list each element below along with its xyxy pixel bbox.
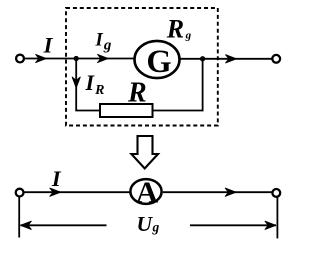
extension line right (voltage measurement) [276,197,278,238]
terminal left (bottom circuit) [16,189,24,197]
extension line left (voltage measurement) [18,197,20,238]
wire: left terminal to galvanometer [25,58,134,60]
current arrow (output wire, top) [226,55,237,63]
wire: left junction down to resistor branch [75,59,77,111]
current arrow I (bottom wire) [50,188,61,196]
dashed box (equivalent ammeter boundary) [66,8,218,126]
galvanometer G [135,41,180,78]
wire: right junction down [202,59,204,111]
equivalence arrow (hollow, downward) [131,136,158,169]
current arrow IR (down the shunt branch) [72,77,80,88]
resistor R (shunt) [100,104,153,117]
current arrow (bottom right wire) [225,188,236,196]
node: left junction [74,56,78,60]
terminal left (top circuit) [16,55,24,63]
svg-text:I: I [43,33,54,58]
dimension line left segment with left arrow [21,224,107,226]
current arrow I (top-left wire) [36,54,47,62]
wire: galvanometer to right terminal [180,58,271,60]
svg-text:G: G [146,44,171,80]
wire: ammeter to right terminal [163,191,272,193]
wire: bottom of shunt branch (left part) [75,110,100,112]
svg-text:R: R [127,77,147,108]
wire: left terminal to ammeter [24,191,129,193]
current arrow Ig (wire into galvanometer) [98,54,109,62]
ammeter A [130,179,161,204]
node: right junction [200,57,204,61]
svg-text:I: I [51,166,62,191]
terminal right (bottom circuit) [272,189,280,197]
wire: bottom of shunt branch (right part) [153,110,204,112]
terminal right (top circuit) [272,55,280,63]
svg-text:A: A [136,175,159,210]
dimension line right segment with right arrow [190,224,276,226]
